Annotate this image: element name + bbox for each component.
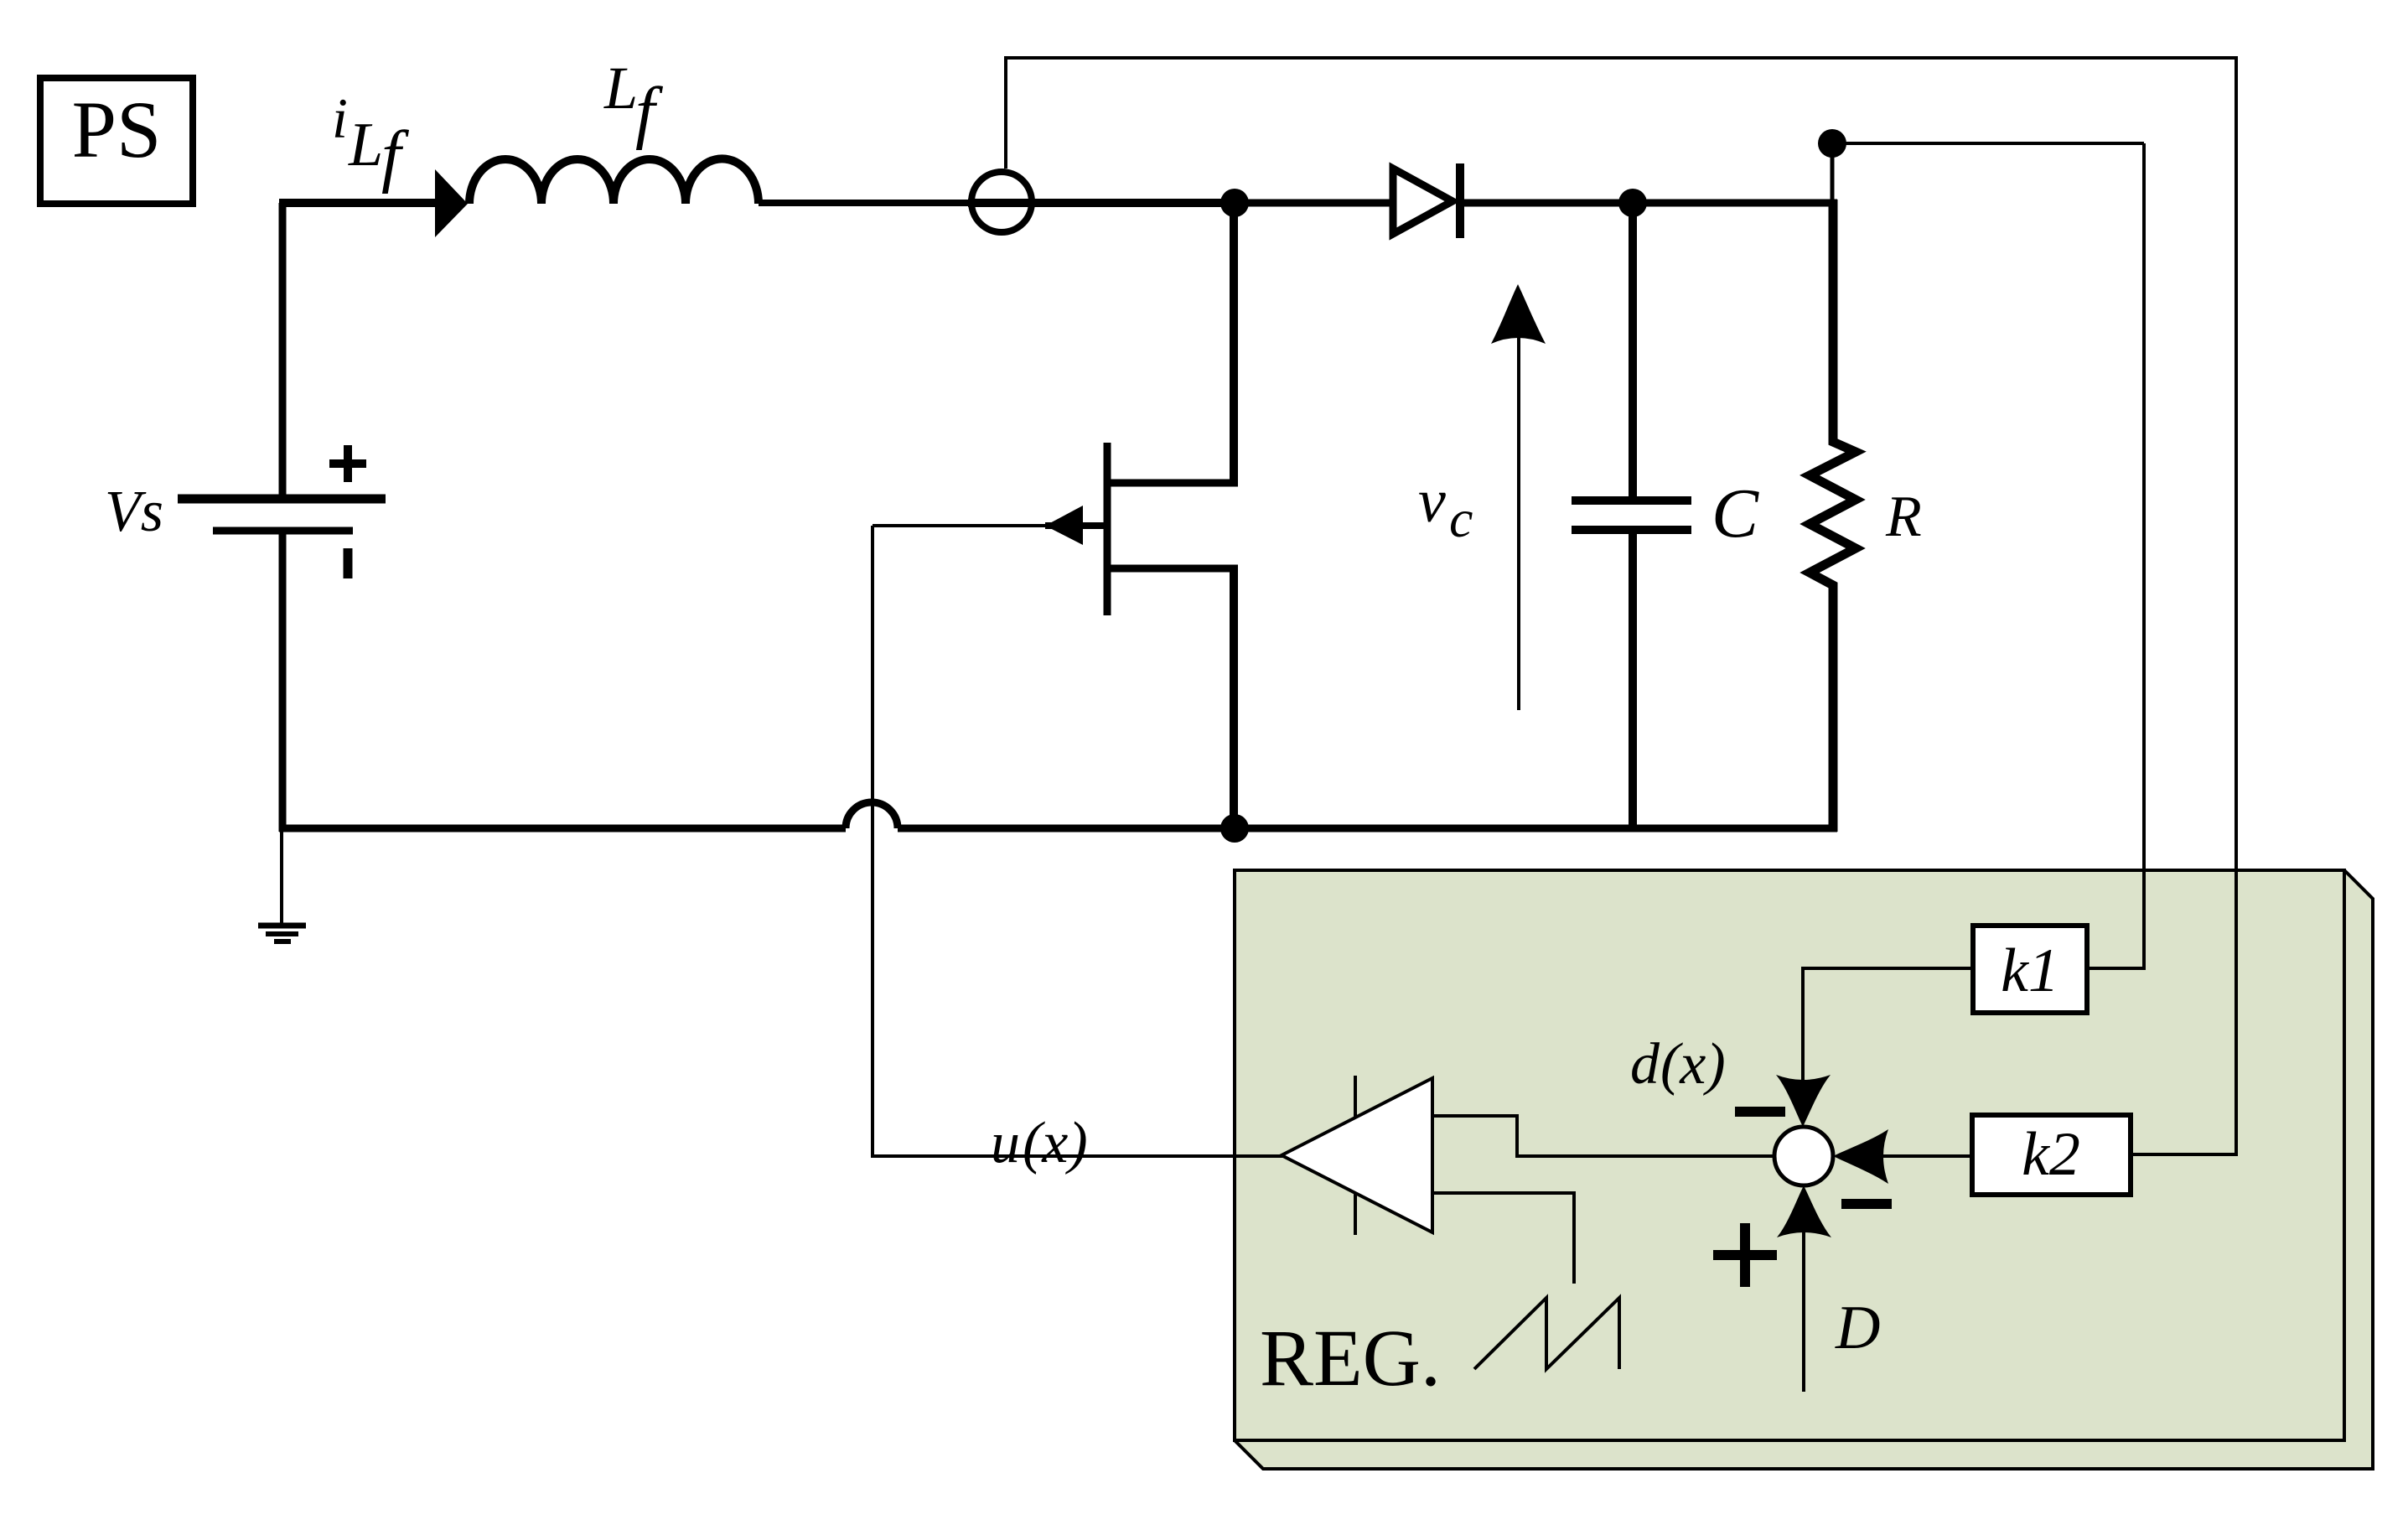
svg-text:k2: k2 xyxy=(2022,1120,2080,1189)
wire: top bus left segment xyxy=(279,199,439,207)
svg-text:d: d xyxy=(1630,1032,1660,1097)
minus sign (k1 input) xyxy=(1735,1107,1785,1117)
ground xyxy=(258,828,306,941)
arrow iLf current direction xyxy=(332,86,468,237)
vc arrow xyxy=(1418,284,1546,710)
node A: output node dot and stub xyxy=(1818,129,2144,203)
resistor R xyxy=(1810,200,1922,832)
node: drain junction dot xyxy=(1220,189,1249,217)
comparator (PWM) xyxy=(1282,1076,1432,1235)
svg-text:L: L xyxy=(603,54,638,122)
svg-text:REG.: REG. xyxy=(1260,1313,1441,1403)
svg-text:(x): (x) xyxy=(1660,1032,1726,1097)
wire: feedback vertical to k1 xyxy=(2087,143,2144,968)
current sensor circle xyxy=(968,172,1236,232)
wire: gate signal u(x) xyxy=(873,526,1284,1175)
summing junction xyxy=(1774,1127,1833,1185)
k2 gain block xyxy=(1972,1115,2131,1195)
REG. controller box (green 3D slab) xyxy=(1235,870,2373,1469)
svg-text:L: L xyxy=(348,111,383,179)
svg-text:i: i xyxy=(332,86,348,150)
wire: inductor to sensor xyxy=(759,200,972,206)
capacitor C xyxy=(1572,203,1759,828)
PS box xyxy=(40,78,193,204)
wire: sensor tap vertical xyxy=(1004,58,1007,169)
wire: bottom bus with hop xyxy=(279,802,1837,828)
svg-text:(x): (x) xyxy=(1023,1111,1088,1175)
svg-text:PS: PS xyxy=(72,85,162,174)
inductor Lf xyxy=(469,54,759,204)
svg-text:v: v xyxy=(1418,467,1446,536)
label REG. xyxy=(1260,1313,1441,1403)
wire: D input xyxy=(1777,1185,1880,1392)
battery Vs xyxy=(105,203,386,832)
wire: top bus diode to R corner xyxy=(1463,200,1837,207)
wire: junction to diode anode xyxy=(1231,200,1396,207)
svg-text:u: u xyxy=(991,1111,1020,1175)
svg-text:R: R xyxy=(1885,485,1922,549)
svg-text:k1: k1 xyxy=(2001,936,2059,1005)
node: source junction dot xyxy=(1220,814,1249,843)
sawtooth generator xyxy=(1474,1298,1619,1369)
svg-text:c: c xyxy=(1449,489,1473,548)
node: capacitor top junction dot xyxy=(1618,189,1647,217)
svg-text:D: D xyxy=(1835,1294,1880,1362)
minus sign (k2 input) xyxy=(1841,1199,1892,1209)
wire: k1 to summing junction xyxy=(1776,968,1973,1127)
svg-text:Vs: Vs xyxy=(105,480,163,544)
plus sign (D input) xyxy=(1713,1223,1777,1287)
wire: right feedback vertical to k2 xyxy=(2131,56,2236,1154)
wire: k2 to summing junction xyxy=(1833,1129,1972,1184)
wire: top feedback horizontal xyxy=(1004,56,2236,60)
k1 gain block xyxy=(1973,926,2087,1013)
wire: d(x) to comparator xyxy=(1434,1032,1774,1156)
svg-text:C: C xyxy=(1711,475,1759,552)
diode D xyxy=(1393,163,1460,238)
wire: sawtooth to comparator xyxy=(1434,1193,1574,1284)
transistor Q (MOSFET) xyxy=(1045,203,1238,832)
